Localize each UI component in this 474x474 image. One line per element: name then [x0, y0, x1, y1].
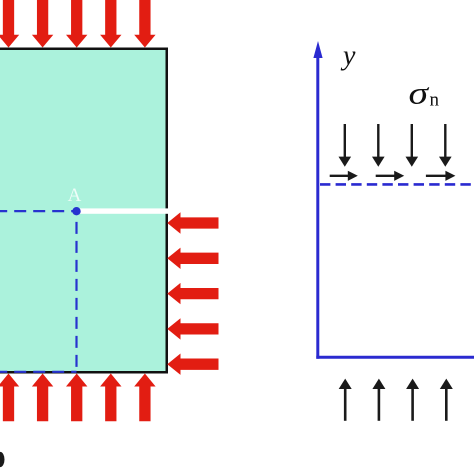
svg-text:A: A [68, 185, 82, 206]
svg-text:σ: σ [409, 75, 430, 110]
svg-text:n: n [430, 90, 440, 111]
svg-text:y: y [340, 41, 356, 72]
